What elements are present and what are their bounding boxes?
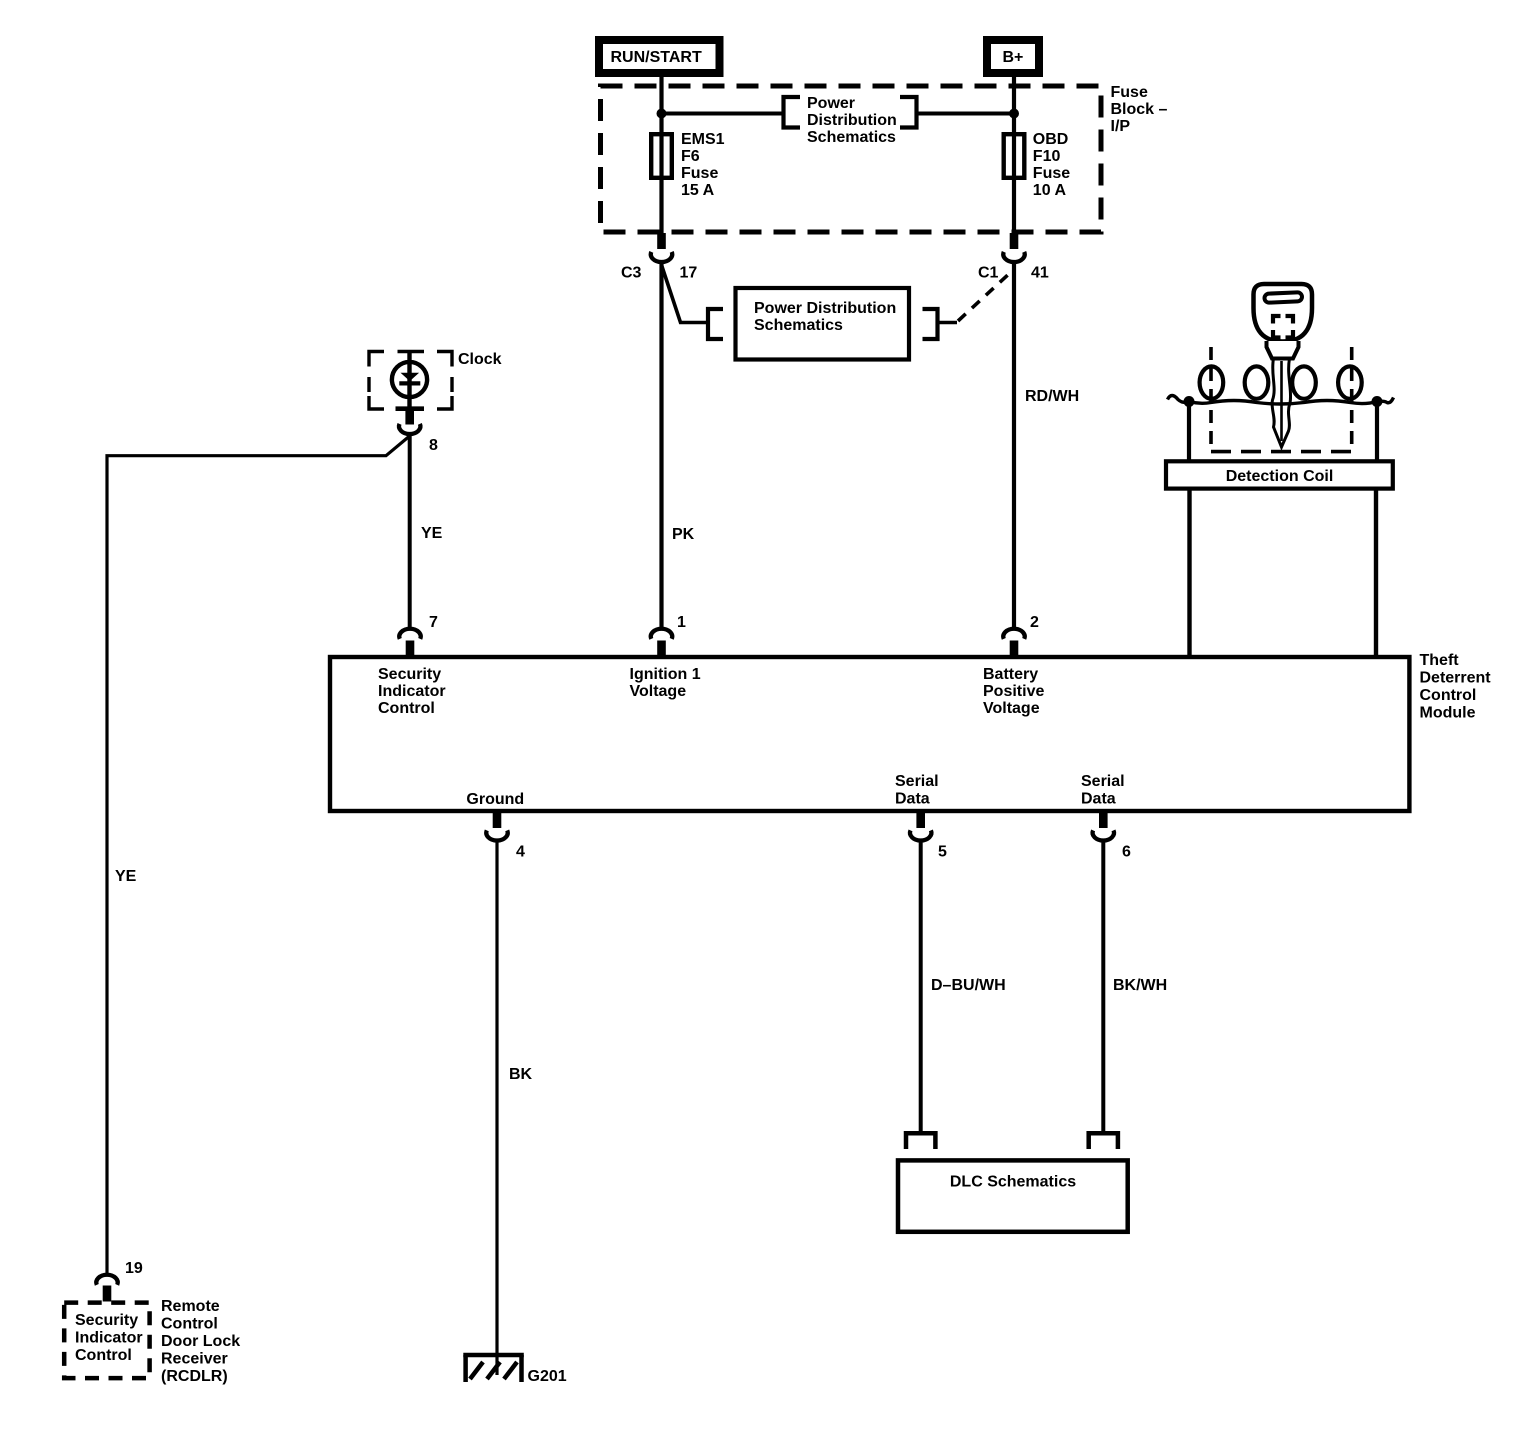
svg-text:Voltage: Voltage [983,700,1040,717]
svg-text:Indicator: Indicator [75,1330,143,1347]
svg-text:Fuse: Fuse [1033,165,1070,182]
svg-text:F6: F6 [681,148,700,165]
svg-text:G201: G201 [528,1368,567,1385]
svg-text:Deterrent: Deterrent [1420,670,1492,687]
svg-text:41: 41 [1031,265,1049,282]
svg-text:Data: Data [1081,791,1116,808]
svg-text:Schematics: Schematics [754,317,843,334]
svg-text:Data: Data [895,791,930,808]
svg-text:RD/WH: RD/WH [1025,388,1079,405]
svg-text:Indicator: Indicator [378,683,446,700]
svg-text:YE: YE [115,868,137,885]
svg-text:Power: Power [807,95,855,112]
svg-text:Ground: Ground [466,791,524,808]
svg-text:Fuse: Fuse [681,165,718,182]
svg-text:1: 1 [677,614,686,631]
svg-text:19: 19 [125,1260,143,1277]
svg-text:6: 6 [1122,844,1131,861]
svg-text:15 A: 15 A [681,182,715,199]
svg-text:F10: F10 [1033,148,1061,165]
svg-text:Control: Control [1420,687,1477,704]
svg-text:Theft: Theft [1420,652,1460,669]
svg-text:Remote: Remote [161,1298,220,1315]
svg-text:Security: Security [378,666,441,683]
svg-text:Security: Security [75,1312,138,1329]
svg-text:Battery: Battery [983,666,1038,683]
svg-text:OBD: OBD [1033,131,1069,148]
svg-text:7: 7 [429,614,438,631]
svg-text:Receiver: Receiver [161,1351,228,1368]
svg-text:Module: Module [1420,705,1476,722]
svg-text:Control: Control [378,700,435,717]
svg-text:8: 8 [429,437,438,454]
svg-text:B+: B+ [1003,49,1024,66]
svg-text:D–BU/WH: D–BU/WH [931,977,1006,994]
svg-text:Schematics: Schematics [807,129,896,146]
svg-text:Fuse: Fuse [1111,84,1148,101]
svg-text:10 A: 10 A [1033,182,1067,199]
svg-text:Voltage: Voltage [630,683,687,700]
svg-text:5: 5 [938,844,947,861]
svg-text:Control: Control [75,1347,132,1364]
svg-text:Serial: Serial [1081,773,1125,790]
svg-text:YE: YE [421,525,443,542]
svg-text:Block –: Block – [1111,101,1168,118]
svg-text:Clock: Clock [458,351,502,368]
svg-text:C1: C1 [978,265,999,282]
svg-text:EMS1: EMS1 [681,131,725,148]
svg-text:(RCDLR): (RCDLR) [161,1368,228,1385]
svg-text:DLC Schematics: DLC Schematics [950,1174,1076,1191]
svg-text:Power Distribution: Power Distribution [754,300,896,317]
svg-text:Detection Coil: Detection Coil [1226,468,1334,485]
svg-text:I/P: I/P [1111,118,1131,135]
svg-text:Distribution: Distribution [807,112,897,129]
svg-text:4: 4 [516,844,525,861]
svg-text:Door Lock: Door Lock [161,1333,240,1350]
svg-text:2: 2 [1030,614,1039,631]
svg-text:C3: C3 [621,265,642,282]
svg-text:17: 17 [680,265,698,282]
svg-text:Control: Control [161,1316,218,1333]
svg-text:Ignition 1: Ignition 1 [630,666,701,683]
svg-text:Serial: Serial [895,773,939,790]
svg-text:BK: BK [509,1066,533,1083]
svg-text:RUN/START: RUN/START [611,49,702,66]
svg-text:Positive: Positive [983,683,1044,700]
svg-text:BK/WH: BK/WH [1113,977,1167,994]
svg-text:PK: PK [672,526,695,543]
